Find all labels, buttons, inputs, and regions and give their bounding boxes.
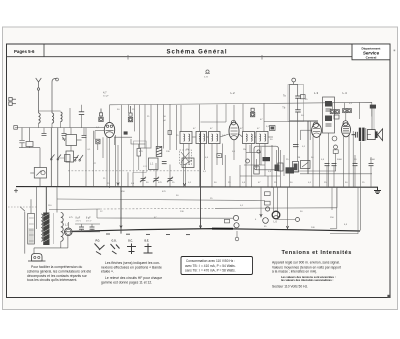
svg-text:O.C.: O.C. (128, 240, 133, 243)
heavy vertical x121 (120, 187, 122, 230)
grid cap squares mid (250, 108, 254, 117)
L2 IFT tall (288, 85, 304, 122)
wire junction down (39, 148, 41, 168)
antenna (36, 78, 42, 113)
verticals mid-left column (70, 128, 104, 187)
coupling coil (61, 112, 63, 122)
svg-text:Consommation avec 110 V/50 H: Consommation avec 110 V/50 Hz : (186, 259, 235, 263)
boxed labels TB TC (265, 192, 271, 196)
svg-text:Pages 5-6: Pages 5-6 (14, 49, 35, 54)
svg-text:1M: 1M (297, 157, 300, 159)
wire AVC to V2 grid (201, 121, 227, 123)
small box mid left (65, 155, 71, 162)
svg-text:G.O.: G.O. (112, 240, 117, 243)
antenna coil L left (39, 113, 41, 123)
IF coils inside boxes (184, 134, 266, 141)
output transformer dark (359, 128, 361, 141)
padder trimmers row (140, 177, 173, 182)
output tube V4 (343, 121, 348, 126)
rectifier tube (65, 228, 73, 236)
small box right of L2 (301, 95, 306, 99)
wires to transformer (39, 178, 41, 187)
svg-text:L.2: L.2 (231, 91, 236, 95)
transformer top/bottom connections (20, 187, 68, 254)
oscillator dashed gang line (68, 170, 200, 172)
svg-text:L.3: L.3 (314, 91, 319, 95)
tick marks along buses (110, 186, 273, 188)
svg-text:tous les circuits qu'ils intér: tous les circuits qu'ils intéressent. (27, 278, 77, 282)
interrupteur box (34, 168, 46, 179)
resistor R terre (26, 142, 33, 147)
svg-text:sans TB : I = 470 mA, P =: sans TB : I = 470 mA, P = 58 Watts. (185, 269, 236, 273)
tick dashes below bus (106, 230, 190, 235)
svg-text:C.V.: C.V. (143, 166, 147, 168)
svg-text:5000: 5000 (337, 159, 343, 161)
L2 caps (295, 96, 301, 112)
svg-text:gamme est donné pages 11 et 12: gamme est donné pages 11 et 12. (101, 280, 152, 284)
dark resistor cluster (156, 146, 162, 156)
scattered value labels (48, 99, 376, 229)
svg-text:8 μF: 8 μF (86, 218, 91, 220)
extra midband verticals right (223, 144, 285, 187)
left paragraph (27, 265, 91, 282)
circled values V4 (332, 136, 337, 141)
small resistor boxes det (254, 166, 259, 174)
IF tube V2 (231, 120, 236, 125)
secondary winding arcs (61, 213, 63, 242)
chassis rail dark (16, 186, 378, 189)
wire grid bus (57, 199, 265, 201)
dashed stub left (8, 206, 38, 208)
wires right top (243, 102, 359, 186)
svg-text:Tensions et Intensités: Tensions et Intensités (282, 250, 352, 256)
wire L return mid (330, 187, 337, 228)
svg-text:B.E.: B.E. (145, 240, 150, 243)
small box left of V1 (96, 139, 100, 144)
band switch box 2 (66, 151, 74, 162)
heavy vertical x200 (200, 132, 202, 230)
header line ticks (127, 55, 129, 60)
wires coil bottoms (39, 105, 82, 128)
svg-text:avec TB : I = 410 mA, P =: avec TB : I = 410 mA, P = 54 Watts. (185, 264, 236, 268)
band switch box 1 (66, 135, 77, 146)
wire heater line (96, 209, 98, 218)
département service central box (352, 44, 390, 60)
L3 L4 assembly box (323, 97, 335, 133)
svg-text:5000: 5000 (370, 159, 376, 161)
svg-text:L.4: L.4 (343, 91, 348, 95)
wire HT B+ line (49, 208, 100, 211)
grid cap square V1 left (99, 109, 103, 122)
aux lead hook (52, 79, 57, 114)
IF strip boxes (180, 132, 268, 144)
small boxed plus (217, 154, 222, 158)
capacitor ant (79, 112, 84, 115)
ground symbol right (374, 187, 381, 194)
extra labels row above rail (107, 182, 365, 185)
AF tube V3 (313, 122, 318, 127)
circle-square pairs under rail (330, 109, 351, 120)
node circle top (292, 78, 296, 82)
svg-text:schéma général, les commutateu: schéma général, les commutateurs ont été (27, 269, 91, 273)
svg-text:475 V: 475 V (86, 221, 92, 223)
detector rounded enclosure (254, 146, 279, 170)
pages box divider (43, 44, 45, 57)
svg-text:Pour faciliter la compréhensio: Pour faciliter la compréhension du (31, 265, 82, 269)
svg-text:Central: Central (366, 56, 377, 60)
svg-text:6,3V: 6,3V (204, 77, 209, 79)
IF strip link wires (184, 105, 274, 187)
extra components small left (42, 134, 87, 138)
bus dark segment (212, 228, 233, 230)
svg-text:à la masse ; intensités en: à la masse ; intensités en mA). (272, 270, 317, 274)
osc section wires (128, 105, 186, 187)
volume pot box (182, 158, 194, 168)
wire short link right (278, 219, 296, 221)
middle paragraph (101, 261, 162, 284)
svg-text:Schéma Général: Schéma Général (166, 50, 227, 56)
consommation box (181, 257, 253, 275)
terminal squares frame left (9, 98, 16, 106)
power transformer primary box (28, 213, 35, 244)
fuse block top right (370, 105, 376, 109)
band switch contacts (51, 128, 62, 187)
svg-text:475 V: 475 V (76, 221, 82, 223)
detector cluster (240, 145, 280, 187)
svg-text:Appareil réglé sur 900 m.: Appareil réglé sur 900 m. environ, sans … (272, 261, 340, 265)
wire HT rail upper (110, 102, 372, 116)
tiny box right of V1 area (168, 131, 172, 135)
svg-text:8 μF: 8 μF (76, 218, 81, 220)
trimmer dashed box (180, 150, 192, 165)
extra midband verticals left (44, 105, 181, 151)
V3 V4 leads (313, 131, 361, 231)
cathode link under V1 (115, 136, 133, 138)
lower area verticals (121, 187, 288, 237)
primary winding arcs (41, 214, 43, 241)
svg-text:décomposés et les contacts: décomposés et les contacts répartis sur (27, 274, 88, 278)
dark knot near V1 (124, 131, 128, 134)
dial lamp top (206, 70, 209, 73)
filter capacitors (79, 227, 95, 229)
svg-text:P.O.: P.O. (96, 240, 101, 243)
svg-text:étalée ».: étalée ». (101, 270, 114, 274)
indicator tube circle (272, 211, 280, 219)
stepped wire top (131, 139, 146, 144)
plus mark left (14, 189, 18, 193)
mains plug (32, 254, 43, 261)
caps bottom right row (293, 145, 374, 166)
switch wafer symbols (95, 244, 153, 255)
wire det link (290, 170, 336, 172)
wire mid left bus (15, 127, 104, 129)
svg-text:50 pF: 50 pF (103, 95, 109, 97)
antenna coil L right (52, 113, 54, 123)
svg-text:4,7: 4,7 (103, 91, 107, 95)
circled values bottom (233, 215, 238, 220)
small resistor in can (137, 149, 141, 157)
converter tube V1 (104, 122, 114, 137)
speaker (367, 129, 382, 141)
resistor boxes det right (293, 162, 299, 173)
wire af link (300, 173, 372, 175)
schematic frame (7, 44, 391, 298)
dash middle HT (100, 207, 215, 210)
left column: Terre network (19, 128, 40, 148)
svg-text:les valeurs des intensités sur: les valeurs des intensités surencadrées … (281, 278, 334, 282)
wire top right link (264, 121, 318, 123)
caps right of L1 (162, 162, 167, 164)
transformer core dark hatched (43, 213, 49, 246)
circled node det (246, 159, 250, 163)
arrows on wires (117, 183, 289, 229)
osc can outline (134, 141, 147, 173)
dark knot detector (263, 157, 271, 161)
frame corner ink blob (387, 295, 390, 298)
svg-text:1M: 1M (186, 149, 189, 151)
header separator line (7, 56, 353, 58)
bottom heavy bus (72, 229, 360, 232)
wire stub (331, 187, 333, 210)
svg-text:L.5: L.5 (65, 223, 69, 227)
wire L return right (330, 187, 358, 234)
svg-text:2M: 2M (243, 149, 246, 151)
grid cap square V1 right (128, 106, 132, 122)
V1 wires (95, 105, 121, 187)
svg-text:Secteur 110 Volts 50 Hz.: Secteur 110 Volts 50 Hz. (272, 285, 308, 289)
osc coil box L1 (149, 158, 159, 170)
